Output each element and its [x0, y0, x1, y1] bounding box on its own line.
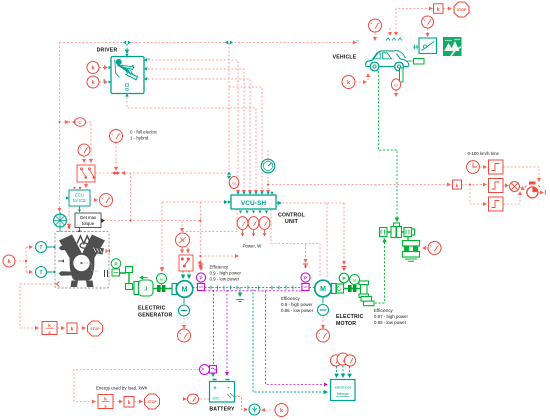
- electrical fittings block: [331, 380, 356, 401]
- X gauge differential: [428, 242, 441, 255]
- svg-text:ω: ω: [394, 83, 398, 88]
- motor P gauge green: [339, 273, 349, 284]
- wire vcu input bundle vertical v1: [144, 60, 238, 193]
- B gauge: [187, 394, 198, 404]
- svg-text:GENERATOR: GENERATOR: [138, 313, 173, 319]
- svg-text:-: -: [228, 386, 230, 392]
- magenta power wires: [205, 290, 328, 385]
- svg-text:k: k: [48, 323, 51, 329]
- car drag zigzags: [386, 38, 402, 41]
- svg-text:P: P: [304, 276, 307, 281]
- svg-text:k: k: [71, 327, 74, 333]
- svg-text:for ICE: for ICE: [73, 198, 86, 203]
- motor port square green: [337, 284, 344, 293]
- engine output flange: [105, 270, 108, 277]
- vcu omega oval red: [229, 177, 239, 189]
- wire x200 riser: [199, 202, 201, 268]
- svg-text:ELECTRIC: ELECTRIC: [336, 314, 364, 320]
- wire step3 to mult: [503, 192, 520, 204]
- wire battery wire 2: [226, 290, 228, 375]
- coupler car-slope: [413, 45, 419, 50]
- wire vcu input v5: [229, 87, 262, 193]
- teal signal wires: [127, 44, 350, 392]
- wire switch to generator b: [188, 271, 190, 279]
- wire vcu input v6 through gauge: [267, 150, 269, 193]
- slope block: [419, 38, 437, 54]
- clock 0-100: [467, 161, 480, 174]
- gauge 116,136: [110, 130, 123, 143]
- VEHICLE car body: [366, 51, 409, 67]
- wire P signal to fittings: [266, 291, 328, 385]
- driveline shaft assembly: [380, 223, 415, 238]
- junction dot 59,122: [59, 121, 61, 123]
- battery current sensor (purple): [200, 365, 218, 375]
- svg-text:br: br: [146, 66, 149, 70]
- k box 0-100: [453, 180, 462, 189]
- wire top branch down x229: [228, 43, 230, 173]
- junction marker x229 y175: [227, 172, 231, 180]
- junction dot 26,261: [25, 260, 27, 262]
- wire purple P command right: [305, 244, 307, 262]
- wire vcu left input y202: [162, 201, 227, 203]
- wire vcu input v3: [144, 79, 250, 193]
- wire driver bottom to vcu v4: [127, 97, 256, 193]
- wire speed line y184.5: [268, 184, 450, 186]
- wire battery soc to B gauge: [199, 398, 210, 400]
- reducer: [359, 281, 369, 298]
- wire motor shaft torque stem: [322, 298, 324, 304]
- wire vehicle omega out: [395, 91, 397, 97]
- vcu speed gauge teal: [261, 159, 275, 173]
- motor omega gauge: [350, 275, 360, 288]
- green drive wires: [371, 71, 397, 303]
- k box vehicle stop: [434, 4, 444, 14]
- svg-text:J: J: [144, 286, 147, 292]
- vcu output ellipse gauges: [237, 217, 270, 230]
- wire top bus y=42.5: [60, 42, 357, 44]
- integrator k/s fuel: [42, 322, 57, 335]
- svg-text:k: k: [128, 400, 131, 406]
- engine fuel port: [55, 282, 60, 287]
- wire reducer to driveline: [371, 239, 385, 303]
- inertia J: [133, 280, 154, 296]
- omega gauge gen shaft: [157, 274, 167, 286]
- wire vehicle to kstop: [396, 9, 432, 34]
- k source vehicle: [342, 76, 355, 89]
- wire gauge84 stem: [83, 156, 85, 162]
- wire battery temp to Y: [235, 397, 248, 410]
- STOP vehicle: [454, 2, 469, 17]
- wire P signal bus y290.8: [205, 290, 303, 292]
- wire step1 right down: [503, 167, 539, 181]
- svg-text:ω: ω: [232, 181, 236, 186]
- ECU for ICE block: [69, 190, 90, 206]
- svg-text:P: P: [343, 276, 346, 281]
- wire gen gauge feed: [181, 221, 183, 231]
- wire ecu to lambda gauge: [90, 199, 97, 201]
- svg-text:Efficiency: Efficiency: [210, 265, 230, 270]
- car sensor rect: [414, 59, 425, 65]
- driver block U-DRV: [111, 57, 144, 94]
- generator command gauge: [176, 233, 190, 247]
- engine exhaust hatch: [94, 248, 102, 253]
- svg-text:VCU-SH: VCU-SH: [241, 200, 267, 207]
- junction marker top line x127: [123, 41, 131, 45]
- svg-text:+: +: [213, 386, 217, 392]
- gain k fuel: [67, 323, 77, 334]
- lambda gauge: [100, 194, 113, 207]
- svg-text:M: M: [182, 287, 188, 294]
- coupling flanges: [157, 285, 165, 292]
- battery: [210, 380, 235, 403]
- k source thermal: [275, 404, 288, 417]
- svg-text:ω: ω: [353, 278, 357, 283]
- cooling fan: [54, 212, 67, 232]
- get max torque block: [75, 213, 101, 228]
- wire green P command: [343, 203, 345, 264]
- svg-text:0.9 - high power: 0.9 - high power: [210, 271, 242, 276]
- wire purple P command left: [200, 266, 202, 270]
- svg-text:T: T: [39, 245, 42, 251]
- svg-text:s: s: [48, 331, 51, 336]
- wire diff to X gauge: [423, 247, 428, 249]
- wire energy line: [74, 370, 200, 402]
- svg-text:MOTOR: MOTOR: [336, 321, 356, 327]
- generator torque gauge: [178, 329, 191, 342]
- wire clutch command x162: [161, 202, 163, 270]
- wire to C const: [60, 121, 69, 123]
- svg-text:gl: gl: [146, 76, 149, 80]
- svg-text:0.95 - low power: 0.95 - low power: [374, 320, 407, 325]
- junction dot 470,184.5: [469, 184, 471, 186]
- wire vcu to gen switch: [182, 209, 237, 232]
- wire gmt control loop: [130, 173, 132, 221]
- stopwatch: [525, 182, 540, 198]
- reducer gear pair: [361, 297, 374, 306]
- wire switch command arrow: [199, 262, 201, 264]
- wire ks2 to k2: [113, 401, 122, 403]
- wire k2 to stop2: [134, 401, 142, 403]
- svg-text:UNIT: UNIT: [285, 219, 299, 225]
- motor torque gauge: [317, 329, 330, 342]
- svg-text:torque: torque: [82, 221, 95, 226]
- step block 2: [489, 179, 504, 193]
- svg-text:ELECTRIC: ELECTRIC: [138, 306, 166, 312]
- STOP energy: [145, 394, 160, 409]
- motor coupling flanges: [348, 285, 356, 292]
- bus node ticks: [211, 286, 293, 290]
- car omega gauge: [391, 79, 400, 90]
- integrator k/s energy: [98, 395, 113, 409]
- svg-text:Get max: Get max: [80, 215, 97, 220]
- svg-text:1 - hybrid: 1 - hybrid: [130, 136, 149, 141]
- mode switch block: [77, 165, 95, 182]
- junction dot 268,184.5: [267, 184, 269, 186]
- svg-text:k: k: [456, 183, 459, 189]
- wire C out: [86, 122, 92, 162]
- T sensor 2: [36, 267, 53, 278]
- generator torque sensor: [179, 305, 190, 316]
- wire left drop to fan: [59, 43, 61, 212]
- wire stopwatch out: [538, 192, 543, 194]
- wire k to junction 0-100: [461, 184, 486, 186]
- wire motor top in1: [326, 203, 328, 277]
- engine P gauge: [111, 259, 121, 276]
- svg-text:0.85 - low power: 0.85 - low power: [281, 308, 314, 313]
- P sensor right (purple): [301, 273, 310, 291]
- car front port: [408, 60, 413, 62]
- wire y256 tag: [200, 255, 238, 257]
- wire vehicle gauge stem: [374, 33, 376, 41]
- VCU-SH block: [231, 195, 276, 209]
- svg-text:ECU: ECU: [75, 193, 84, 198]
- svg-text:Power, W: Power, W: [243, 244, 263, 249]
- svg-text:CONTROL: CONTROL: [278, 213, 306, 219]
- wire vcu bottom to motor y243: [271, 209, 320, 277]
- generator M: [172, 284, 177, 295]
- wire vcu input v2: [144, 69, 244, 193]
- red T arrow above purple P left: [199, 264, 204, 268]
- car vertical bar: [400, 68, 404, 82]
- junction dot 200,256: [199, 255, 201, 257]
- source k1: [87, 62, 99, 74]
- svg-text:k: k: [437, 7, 440, 13]
- wire k to Y: [262, 409, 275, 411]
- car roof gauge: [369, 19, 382, 32]
- wire motor torque gauge stem: [322, 317, 324, 329]
- svg-text:0.9 - low power: 0.9 - low power: [210, 277, 240, 282]
- svg-text:acc: acc: [146, 57, 151, 61]
- svg-text:electrical: electrical: [335, 385, 351, 390]
- wire fuel to integrator: [20, 284, 56, 328]
- wire switch to ecu: [85, 182, 87, 187]
- engine flywheel: [72, 253, 92, 273]
- svg-text:STOP: STOP: [90, 327, 100, 331]
- gauge 84,150: [78, 144, 90, 156]
- motor right flange: [332, 284, 337, 294]
- wire ecu to engine: [68, 207, 70, 227]
- svg-text:SOC: SOC: [212, 397, 220, 401]
- junction dot 116,173: [112, 171, 120, 175]
- wire k to stop: [77, 327, 85, 329]
- differential block: [403, 237, 420, 262]
- red T arrow above green P motor: [342, 267, 347, 271]
- wire gmt out to x200: [103, 220, 201, 222]
- svg-text:T: T: [39, 270, 42, 276]
- driver pins: [109, 54, 148, 97]
- wire k to T junction: [15, 247, 31, 272]
- svg-text:fittings: fittings: [337, 391, 349, 396]
- engine intake zigzag: [77, 236, 91, 244]
- svg-text:ω: ω: [160, 277, 164, 282]
- svg-text:STOP: STOP: [147, 400, 157, 404]
- wire junction to step3: [470, 185, 486, 205]
- svg-text:k: k: [104, 397, 107, 403]
- svg-text:STOP: STOP: [457, 8, 467, 12]
- shaft engine to bracket: [120, 272, 127, 274]
- multiplier: [510, 182, 520, 192]
- wire bus to fittings: [253, 289, 327, 392]
- wire drag arrows: [389, 28, 391, 35]
- wire battery wire 1: [213, 290, 215, 364]
- engine ICE artwork: [59, 235, 105, 288]
- port labels driver: [103, 39, 360, 82]
- wire y173 left arrow: [122, 172, 126, 174]
- constant C source: [68, 118, 86, 126]
- engine ICE dashed box: [55, 232, 109, 289]
- bus ground bar: [237, 300, 244, 302]
- wire step2 to mult: [503, 185, 508, 187]
- junction dot 200,220: [199, 220, 201, 222]
- svg-text:0 - full electric: 0 - full electric: [130, 130, 158, 135]
- wire car to driveline: [379, 71, 398, 221]
- wire switch out y173: [95, 172, 229, 174]
- svg-text:0-100 km/h time: 0-100 km/h time: [468, 151, 500, 156]
- clutch bracket: [126, 267, 133, 290]
- wire mult to stopwatch: [520, 187, 524, 190]
- vcu top pin arrows: [236, 192, 273, 195]
- motor shaft: [344, 288, 361, 290]
- svg-text:Efficiency: Efficiency: [374, 308, 394, 313]
- P sensor left (purple): [196, 273, 205, 291]
- svg-text:DRIVER: DRIVER: [97, 48, 118, 54]
- car wheels: [370, 62, 403, 71]
- svg-text:s: s: [104, 405, 107, 410]
- red T arrow above purple P right: [303, 264, 308, 268]
- T sensor 1: [36, 242, 53, 253]
- svg-text:gl: gl: [103, 78, 106, 82]
- engine inner arrow: [58, 260, 64, 262]
- wire switch to generator a: [182, 271, 184, 279]
- svg-text:VEHICLE: VEHICLE: [333, 55, 357, 61]
- svg-text:BATTERY: BATTERY: [209, 407, 235, 413]
- svg-text:P: P: [200, 276, 203, 281]
- junction dot 130,220: [130, 220, 132, 222]
- source k engine: [3, 255, 15, 267]
- svg-text:0.97 - high power: 0.97 - high power: [374, 314, 408, 319]
- generator inverter switch: [179, 255, 193, 271]
- STOP fuel: [88, 321, 103, 336]
- wire bus main: [193, 287, 315, 289]
- svg-text:0.9 - high power: 0.9 - high power: [281, 302, 313, 307]
- svg-text:M: M: [320, 286, 326, 293]
- wire bus ground hang: [239, 288, 241, 296]
- wire ks to k: [57, 327, 64, 329]
- wire clock to step1: [480, 166, 487, 168]
- wire vcu right out: [282, 202, 344, 204]
- wire slope gauge stem: [427, 28, 429, 36]
- wire driver top arrow: [126, 44, 128, 53]
- wire T arrows: [29, 246, 32, 248]
- Y thermal sensor: [249, 404, 260, 415]
- shaft J to M: [153, 288, 173, 290]
- vcu bottom pins: [239, 211, 268, 214]
- vcu left pin: [228, 200, 231, 203]
- wire clutch arrow end: [161, 268, 163, 271]
- step block 3: [489, 197, 504, 211]
- source k2: [87, 76, 99, 88]
- wire junction116 vertical: [115, 143, 117, 171]
- gain k energy: [124, 397, 134, 408]
- wire vehicle k to wheel: [355, 81, 366, 83]
- engine exhaust port: [106, 249, 110, 253]
- svg-text:Energy used by load, kWh: Energy used by load, kWh: [96, 386, 148, 391]
- wire gen shaft torque stem: [183, 298, 185, 304]
- motor M: [315, 280, 332, 297]
- fittings gauges: [330, 353, 355, 366]
- svg-text:P: P: [115, 261, 118, 266]
- road image block: [443, 37, 462, 56]
- slope gauge: [422, 16, 434, 28]
- wire k3 to stop3: [443, 8, 451, 10]
- wire gen torque gauge stem: [183, 318, 185, 329]
- junction marker top line x229: [225, 41, 233, 45]
- wire sensor to battery pin: [212, 373, 214, 377]
- motor torque sensor: [318, 305, 329, 316]
- svg-text:Efficiency: Efficiency: [281, 296, 301, 301]
- wire fittings top stubs: [336, 367, 338, 378]
- step block 1: [489, 160, 504, 174]
- vcu right pin: [276, 201, 281, 204]
